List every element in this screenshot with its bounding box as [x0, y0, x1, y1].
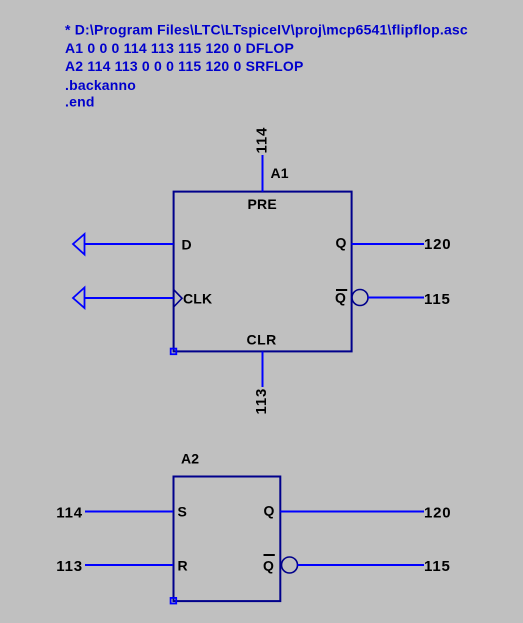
arrowhead on A1 CLK input wire: [73, 288, 85, 309]
svg-text:D: D: [182, 237, 192, 253]
wire A1 CLR to net 113: [262, 351, 264, 387]
svg-text:114: 114: [56, 505, 83, 522]
svg-text:Q: Q: [336, 235, 347, 251]
wire A1 CLK input: [85, 297, 174, 299]
svg-text:115: 115: [424, 291, 451, 308]
wire net 114 to A2 S: [85, 511, 173, 513]
svg-text:CLK: CLK: [183, 291, 212, 307]
svg-text:Q: Q: [263, 558, 274, 574]
wire A2 Q output to net 120: [280, 511, 424, 513]
wire A1 Q-bar output to net 115: [368, 297, 424, 299]
A1 Q-bar overline: [336, 289, 347, 291]
svg-text:113: 113: [56, 558, 83, 575]
A2 inversion bubble on Q-bar output: [282, 557, 298, 573]
A1 origin marker square: [171, 349, 177, 355]
svg-text:* D:\Program Files\LTC\LTspice: * D:\Program Files\LTC\LTspiceIV\proj\mc…: [65, 21, 468, 37]
wire A1 Q output to net 120: [352, 243, 425, 245]
A1 clock wedge on CLK pin: [174, 290, 182, 307]
svg-text:A2 114 113 0 0 0 115 120 0 SRF: A2 114 113 0 0 0 115 120 0 SRFLOP: [65, 58, 304, 74]
flip-flop U=A2 SRFLOP body: [174, 477, 281, 602]
wire A2 Q-bar output to net 115: [298, 564, 425, 566]
svg-text:A1: A1: [271, 165, 289, 181]
svg-text:A2: A2: [181, 450, 199, 466]
svg-text:120: 120: [424, 505, 451, 522]
svg-text:PRE: PRE: [248, 196, 277, 212]
svg-text:115: 115: [424, 558, 451, 575]
svg-text:CLR: CLR: [247, 332, 277, 348]
flip-flop U=A1 DFLOP body: [174, 192, 352, 352]
svg-text:Q: Q: [264, 503, 275, 519]
svg-text:.backanno: .backanno: [65, 77, 136, 93]
A1 inversion bubble on Q-bar output: [352, 290, 368, 306]
svg-text:114: 114: [254, 127, 271, 154]
A2 Q-bar overline: [264, 554, 275, 556]
svg-text:.end: .end: [65, 94, 95, 110]
svg-text:S: S: [178, 503, 188, 519]
wire A1 D input: [85, 243, 174, 245]
svg-text:A1 0 0 0 114 113 115 120 0 DFL: A1 0 0 0 114 113 115 120 0 DFLOP: [65, 40, 294, 56]
svg-text:Q: Q: [335, 290, 346, 306]
wire net 113 to A2 R: [85, 564, 173, 566]
A2 origin marker square: [171, 598, 177, 604]
arrowhead on A1 D input wire: [73, 234, 85, 255]
wire net 114 to A1 PRE pin: [262, 155, 264, 192]
svg-text:113: 113: [253, 388, 270, 415]
svg-text:R: R: [178, 558, 188, 574]
svg-text:120: 120: [424, 236, 451, 253]
